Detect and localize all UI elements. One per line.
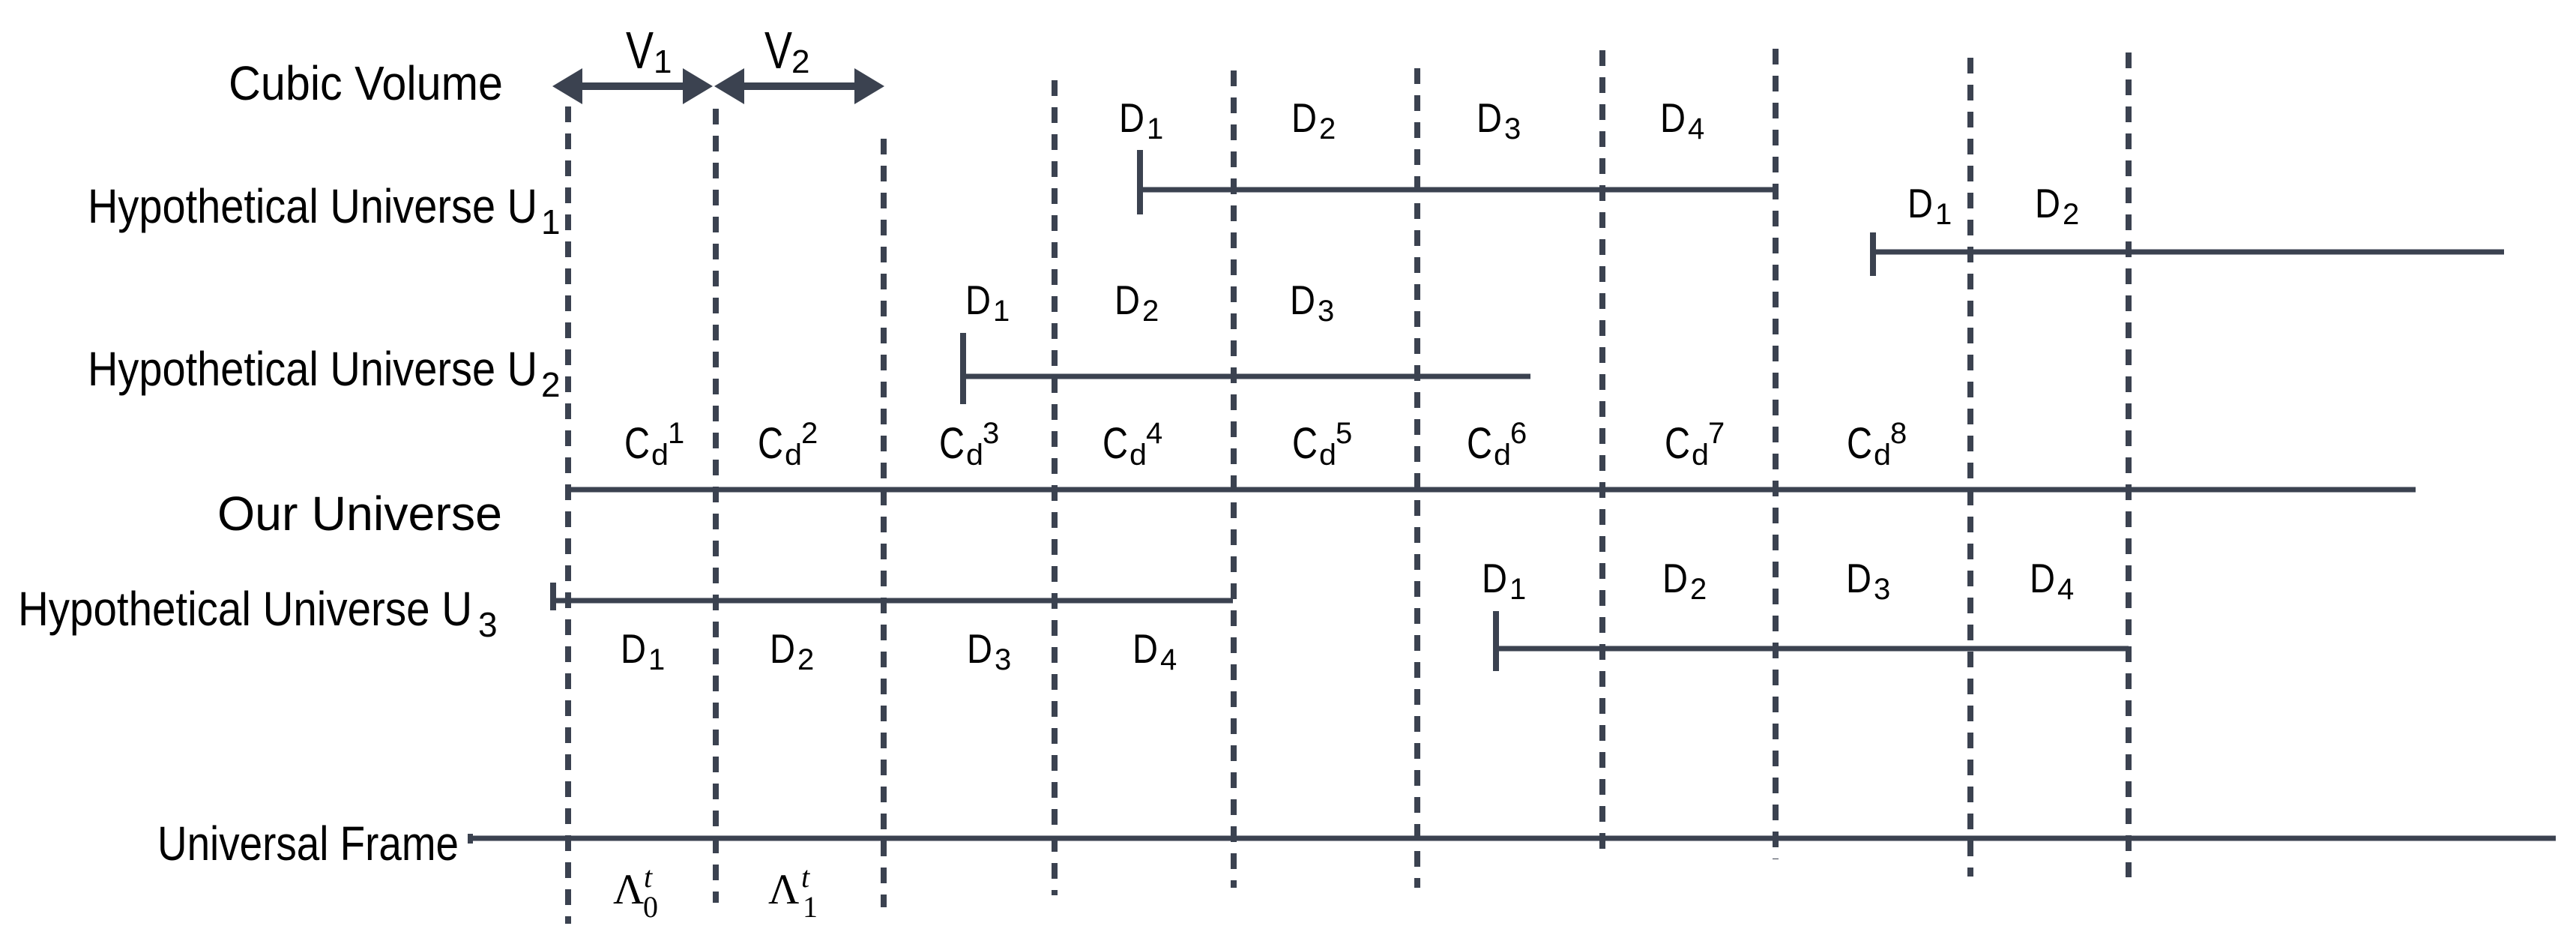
svg-text:D: D: [1846, 555, 1871, 601]
svg-text:4: 4: [2057, 573, 2074, 606]
svg-text:4: 4: [1146, 417, 1162, 450]
svg-text:1: 1: [1935, 198, 1952, 231]
U2 timeline start tick: [960, 333, 966, 404]
svg-text:3: 3: [995, 643, 1011, 676]
svg-text:C: C: [1665, 419, 1690, 468]
svg-text:d: d: [1692, 439, 1709, 472]
svg-text:Λ: Λ: [768, 866, 799, 913]
svg-text:Hypothetical Universe U: Hypothetical Universe U: [88, 179, 537, 233]
dashed gridline L9: [1967, 58, 1973, 877]
svg-text:0: 0: [643, 890, 658, 924]
svg-text:V: V: [764, 21, 792, 79]
svg-text:3: 3: [1318, 295, 1334, 328]
U3 timeline 2 bar: [1493, 646, 2129, 652]
svg-text:d: d: [966, 439, 983, 472]
svg-text:d: d: [785, 439, 802, 472]
svg-text:t: t: [644, 860, 653, 894]
svg-text:D: D: [1114, 277, 1140, 323]
svg-text:Our Universe: Our Universe: [217, 487, 502, 541]
svg-text:2: 2: [2063, 198, 2079, 231]
svg-text:7: 7: [1708, 417, 1725, 450]
U3 timeline 2 start tick: [1493, 611, 1499, 671]
svg-text:d: d: [1319, 439, 1336, 472]
svg-text:1: 1: [1147, 112, 1163, 145]
svg-text:2: 2: [797, 643, 814, 676]
svg-text:Universal Frame: Universal Frame: [157, 817, 459, 871]
svg-text:C: C: [758, 419, 783, 468]
svg-text:1: 1: [1509, 573, 1526, 606]
V1 left arrowhead: [552, 68, 582, 104]
svg-text:D: D: [1476, 94, 1502, 141]
svg-text:D: D: [2035, 180, 2060, 226]
svg-text:C: C: [1103, 419, 1128, 468]
svg-text:Cubic Volume: Cubic Volume: [229, 56, 503, 110]
svg-text:D: D: [770, 625, 795, 672]
V2 arrow shaft: [740, 82, 856, 90]
U1 timeline 1 start tick: [1137, 150, 1143, 214]
dashed gridline L2: [713, 109, 719, 903]
Universal Frame start nub: [468, 834, 473, 844]
svg-text:C: C: [1847, 419, 1872, 468]
svg-text:C: C: [624, 419, 650, 468]
dashed gridline L4: [1052, 80, 1058, 895]
svg-text:V: V: [626, 21, 654, 79]
dashed gridline L1: [565, 106, 571, 924]
svg-text:8: 8: [1890, 417, 1907, 450]
svg-text:3: 3: [478, 605, 498, 644]
V2 left arrowhead: [714, 68, 744, 104]
svg-text:D: D: [1907, 180, 1933, 226]
svg-text:d: d: [651, 439, 669, 472]
svg-text:C: C: [939, 419, 965, 468]
dashed gridline L3: [881, 139, 887, 907]
svg-text:2: 2: [791, 43, 809, 80]
U3 timeline 1 start tick: [550, 583, 556, 610]
svg-text:1: 1: [648, 643, 665, 676]
svg-text:3: 3: [1874, 573, 1890, 606]
svg-text:3: 3: [1504, 112, 1521, 145]
svg-text:D: D: [1660, 94, 1686, 141]
dashed gridline L5: [1231, 70, 1237, 888]
V2 right arrowhead: [854, 68, 884, 104]
svg-text:2: 2: [1690, 573, 1707, 606]
svg-text:D: D: [965, 277, 991, 323]
dashed gridline L6: [1414, 68, 1420, 888]
svg-text:2: 2: [541, 365, 561, 404]
svg-text:D: D: [1662, 555, 1688, 601]
svg-text:C: C: [1292, 419, 1318, 468]
svg-text:1: 1: [668, 417, 684, 450]
svg-text:2: 2: [1319, 112, 1336, 145]
svg-text:d: d: [1129, 439, 1147, 472]
svg-text:5: 5: [1336, 417, 1352, 450]
svg-text:4: 4: [1688, 112, 1704, 145]
U1 timeline 2 start tick: [1870, 232, 1876, 276]
svg-text:1: 1: [803, 890, 818, 924]
U1 timeline 1 bar: [1137, 187, 1773, 193]
V1 right arrowhead: [683, 68, 713, 104]
svg-text:D: D: [1132, 625, 1158, 672]
svg-text:C: C: [1467, 419, 1492, 468]
svg-text:d: d: [1494, 439, 1511, 472]
Universal Frame line: [468, 836, 2556, 841]
svg-text:2: 2: [801, 417, 818, 450]
svg-text:1: 1: [993, 295, 1010, 328]
svg-text:6: 6: [1510, 417, 1527, 450]
svg-text:2: 2: [1142, 295, 1159, 328]
Our Universe timeline bar: [568, 487, 2416, 493]
U2 timeline bar: [960, 374, 1530, 379]
dashed gridline L7: [1599, 50, 1605, 857]
svg-text:t: t: [801, 860, 810, 894]
svg-text:1: 1: [654, 43, 672, 80]
U1 timeline 2 bar: [1870, 250, 2504, 255]
V1 arrow shaft: [579, 82, 687, 90]
svg-text:Hypothetical Universe U: Hypothetical Universe U: [18, 582, 472, 636]
svg-text:3: 3: [983, 417, 999, 450]
svg-text:Λ: Λ: [613, 866, 644, 913]
svg-text:4: 4: [1160, 643, 1177, 676]
svg-text:1: 1: [541, 202, 561, 241]
dashed gridline L10: [2126, 52, 2132, 877]
svg-text:D: D: [1482, 555, 1507, 601]
svg-text:d: d: [1874, 439, 1891, 472]
svg-text:D: D: [621, 625, 646, 672]
svg-text:D: D: [2030, 555, 2055, 601]
svg-text:D: D: [967, 625, 992, 672]
svg-text:D: D: [1291, 94, 1317, 141]
svg-text:D: D: [1290, 277, 1315, 323]
dashed gridline L8: [1773, 49, 1779, 859]
U3 timeline 1 bar: [550, 598, 1233, 604]
svg-text:D: D: [1119, 94, 1144, 141]
svg-text:Hypothetical Universe U: Hypothetical Universe U: [88, 342, 537, 396]
